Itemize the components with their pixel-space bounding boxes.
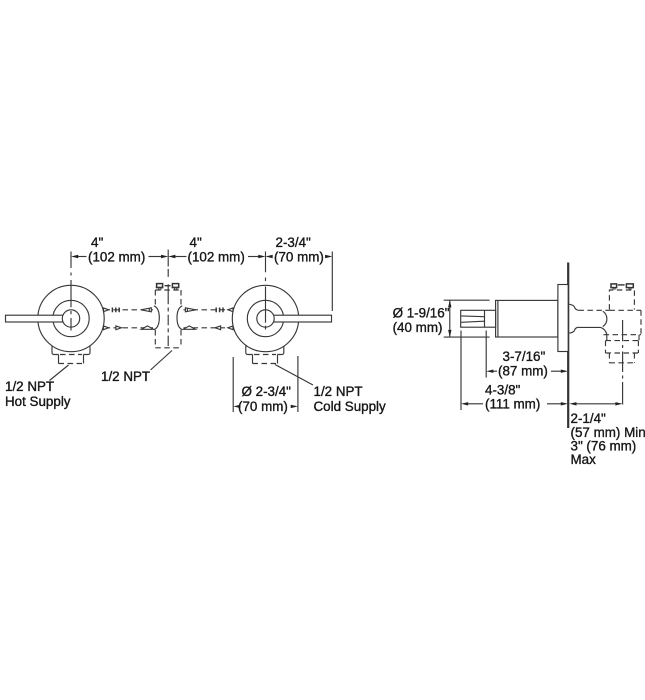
stem splines (461, 316, 484, 322)
svg-text:1/2 NPT: 1/2 NPT (314, 384, 363, 399)
svg-text:2-3/4": 2-3/4" (276, 235, 312, 250)
hot pipe union funnel upper (141, 308, 151, 312)
rough-in band A (606, 335, 640, 341)
label hot supply leader (50, 365, 69, 381)
svg-text:Ø 2-3/4": Ø 2-3/4" (242, 384, 292, 399)
rough-in main body (604, 310, 642, 334)
dimension 3-7/16 line and arrows (486, 370, 568, 373)
extension line right of cold handle (331, 252, 333, 312)
upper pipe hot-to-tee (105, 309, 154, 311)
dimension dia 2-3/4 extension lines (233, 356, 298, 412)
svg-text:Hot Supply: Hot Supply (5, 394, 71, 409)
dimension 4-3/8 extension line (460, 331, 462, 411)
svg-text:(70 mm): (70 mm) (274, 249, 324, 264)
cold valve supply fitting (246, 344, 284, 364)
lower pipe tee-to-cold (184, 327, 233, 329)
tee nut left (156, 284, 164, 290)
cold pipe small arrow lower (215, 326, 221, 330)
tee body top edge (155, 289, 181, 291)
hot valve escutcheon outer circle (38, 285, 104, 351)
valve stem (461, 310, 496, 327)
tee waist right (177, 306, 182, 330)
hot valve handle (6, 315, 69, 322)
hot pipe small arrow lower (116, 326, 122, 330)
wall line (567, 263, 569, 429)
dimension 2-1/4 line and arrows (569, 402, 622, 405)
svg-text:Cold Supply: Cold Supply (314, 399, 387, 414)
cold pipe union chevron lower (183, 326, 195, 329)
svg-text:Ø 1-9/16": Ø 1-9/16" (393, 306, 450, 321)
svg-text:4-3/8": 4-3/8" (485, 383, 521, 398)
cold valve handle (268, 315, 332, 322)
cold valve escutcheon outer circle (232, 285, 298, 351)
hot pipe flag upper (104, 308, 109, 312)
cold valve stem circle (257, 310, 274, 327)
tee centerline (167, 250, 169, 346)
dimension dia 1-9/16 extension lines (444, 300, 490, 337)
wall flange (558, 285, 568, 352)
svg-text:(102 mm): (102 mm) (188, 249, 245, 264)
hot pipe flag lower (104, 326, 109, 330)
valve body inner edge (497, 300, 499, 337)
behind-wall pipe bottom (578, 326, 600, 328)
dimension 4in right: line and arrows (168, 255, 265, 258)
tee leader line (151, 351, 173, 371)
rough-in band C (609, 353, 634, 363)
svg-text:1/2 NPT: 1/2 NPT (5, 379, 54, 394)
stem divider (484, 310, 486, 327)
cold valve mid circle (247, 300, 283, 336)
hot valve supply fitting (52, 344, 90, 364)
hot valve mid circle (53, 300, 89, 336)
svg-text:(102 mm): (102 mm) (88, 249, 145, 264)
tee body left edge (154, 290, 156, 348)
dimension 4in left: line and arrows (71, 255, 168, 258)
svg-text:1/2 NPT: 1/2 NPT (101, 369, 150, 384)
dimension 3-7/16 extension line (485, 331, 487, 378)
hot pipe union chevron lower (142, 326, 154, 329)
valve body cylinder (496, 300, 558, 337)
rough-in centerline (622, 320, 624, 405)
behind-wall trumpet bottom (569, 327, 578, 333)
hot valve stem circle (62, 310, 79, 327)
tee body right edge (180, 290, 182, 348)
tee waist left (154, 306, 159, 330)
behind-wall bottom drop (601, 327, 607, 334)
rough-in bonnet sides (609, 290, 634, 310)
cold pipe flag upper (228, 308, 233, 312)
rough-in cap right (618, 284, 634, 290)
svg-text:4": 4" (190, 235, 202, 250)
dimension dia 2-3/4: line and arrows (233, 405, 298, 408)
tee body bottom edge (155, 347, 181, 349)
hot pipe thread marks upper (112, 308, 119, 313)
svg-text:(40 mm): (40 mm) (393, 320, 443, 335)
cold valve leader line (275, 365, 313, 386)
cold pipe flag lower (228, 326, 233, 330)
svg-text:2-1/4": 2-1/4" (571, 411, 607, 426)
tee nut right (165, 284, 180, 290)
cold pipe union funnel upper (185, 308, 195, 312)
behind-wall seat arc (603, 311, 607, 326)
cold pipe thread marks upper (216, 308, 223, 313)
dimension dia 1-9/16 line and arrows (448, 300, 451, 337)
cold valve centerline (265, 252, 267, 330)
svg-text:3-7/16": 3-7/16" (503, 349, 546, 364)
svg-text:(87 mm): (87 mm) (498, 364, 548, 379)
rough-in band B (606, 341, 639, 353)
dimension 4-3/8 line and arrows (461, 402, 568, 405)
hot valve centerline (70, 252, 72, 331)
lower pipe hot-to-tee (105, 327, 154, 329)
behind-wall trumpet top (569, 304, 578, 310)
svg-text:(111 mm): (111 mm) (485, 396, 540, 411)
behind-wall pipe top dashed (578, 309, 609, 311)
svg-text:(70 mm): (70 mm) (238, 399, 288, 414)
svg-text:Max: Max (571, 452, 597, 467)
svg-text:4": 4" (91, 235, 103, 250)
rough-in cap left (611, 284, 617, 290)
dimension 2-3/4in: line and arrows (266, 255, 333, 258)
upper pipe tee-to-cold (184, 309, 233, 311)
